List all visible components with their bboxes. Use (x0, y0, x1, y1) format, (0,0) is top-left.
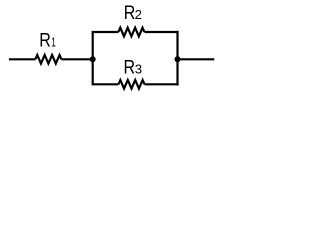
wire left lead (9, 58, 36, 60)
label R1 (39, 30, 56, 52)
wire left vertical branch (92, 32, 94, 84)
resistor R3 (119, 80, 145, 89)
svg-text:R: R (124, 57, 136, 79)
node B junction dot (175, 56, 181, 62)
svg-text:2: 2 (135, 7, 142, 22)
wire right vertical branch (176, 31, 178, 86)
node A junction dot (90, 56, 96, 62)
wire bottom branch left segment (92, 83, 119, 85)
label R3 (124, 57, 143, 79)
wire right lead (178, 58, 215, 60)
wire top branch right segment (144, 31, 178, 33)
svg-text:R: R (39, 30, 51, 52)
wire R1 to node A (61, 58, 92, 60)
wire top branch left segment (92, 31, 119, 33)
svg-text:1: 1 (51, 35, 56, 50)
resistor R2 (118, 28, 144, 37)
svg-text:3: 3 (135, 62, 142, 77)
wire bottom branch right segment (145, 83, 179, 85)
resistor R1 (35, 55, 61, 64)
label R2 (124, 2, 142, 24)
